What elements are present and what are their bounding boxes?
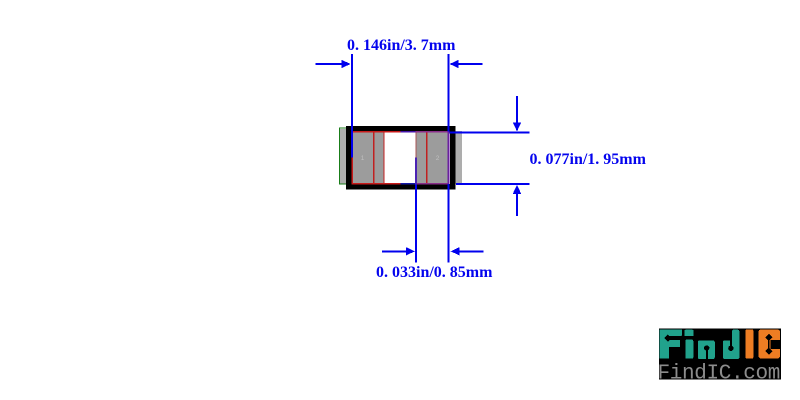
logo letter I (orange) xyxy=(746,329,754,358)
bottom dimension arrow left xyxy=(382,250,408,252)
logo letter d (teal) xyxy=(723,330,739,359)
paste overlay top edge (navy/purple segments) xyxy=(401,131,416,133)
right dimension horizontal line top xyxy=(450,131,530,133)
logo letter C (orange) xyxy=(758,329,780,358)
pad 1 right edge (red) xyxy=(383,132,385,184)
pad 2 solder-mask extension (light gray, right) xyxy=(449,131,462,184)
dimension extension line middle (x=415.9) indigo over pad xyxy=(415,157,417,184)
svg-text:0. 146in/3. 7mm: 0. 146in/3. 7mm xyxy=(347,37,456,54)
logo letter F (teal) xyxy=(660,329,687,358)
bottom dimension arrow right xyxy=(458,250,484,252)
pad 2 (gray copper) xyxy=(416,132,449,183)
pads outline (red rectangle) xyxy=(352,132,448,184)
dimension extension line middle blue bottom xyxy=(415,185,417,263)
logo letter n (teal) xyxy=(698,340,715,359)
pad 1 (gray copper) xyxy=(353,132,385,183)
FindIC logo black background xyxy=(659,329,781,380)
right dimension vertical arrow top (pointing down) xyxy=(516,96,518,124)
dimension extension line right overlap with red rect (purple) xyxy=(448,132,450,185)
svg-text:0. 077in/1. 95mm: 0. 077in/1. 95mm xyxy=(530,151,647,168)
svg-text:1: 1 xyxy=(361,155,365,162)
top dimension arrow left xyxy=(316,63,344,65)
right dimension horizontal line bottom xyxy=(456,183,530,185)
dimension extension line right blue bottom xyxy=(448,184,450,263)
paste overlay bottom edge (navy/purple segments) xyxy=(401,183,416,185)
pad 1 solder-mask extension (light gray, left) xyxy=(340,129,352,184)
body silkscreen line left (red, inside pad 1) xyxy=(373,132,375,184)
svg-text:0. 033in/0. 85mm: 0. 033in/0. 85mm xyxy=(376,264,493,281)
dimension extension line left (x=351.5) xyxy=(351,54,353,157)
body silkscreen line right (red, inside pad 2) xyxy=(426,132,428,184)
capacitor C1 footprint: courtyard outline (green) xyxy=(340,128,354,184)
svg-text:2: 2 xyxy=(436,155,440,162)
right dimension vertical arrow bottom (pointing up) xyxy=(516,192,518,216)
svg-text:FindIC.com: FindIC.com xyxy=(658,363,781,386)
top dimension arrow right xyxy=(457,63,483,65)
component body outline (thick black) xyxy=(349,129,453,187)
pad 2 left edge (dark red) xyxy=(415,132,417,157)
logo letter i (teal) xyxy=(684,330,693,359)
dimension extension line right (x=448.6) blue top xyxy=(448,54,450,132)
